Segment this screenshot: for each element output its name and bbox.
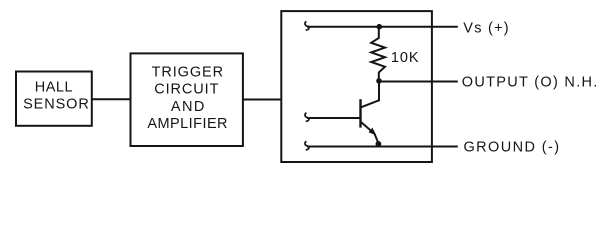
svg-text:HALL: HALL [35,80,73,96]
svg-text:AMPLIFIER: AMPLIFIER [147,116,228,132]
svg-text:AND: AND [171,99,206,115]
svg-text:10K: 10K [391,50,420,66]
svg-text:TRIGGER: TRIGGER [152,64,224,80]
svg-text:CIRCUIT: CIRCUIT [154,82,219,98]
svg-text:GROUND (-): GROUND (-) [464,140,561,156]
svg-text:OUTPUT (O) N.H.: OUTPUT (O) N.H. [462,75,599,91]
svg-text:SENSOR: SENSOR [23,97,90,113]
svg-text:Vs (+): Vs (+) [463,20,510,36]
